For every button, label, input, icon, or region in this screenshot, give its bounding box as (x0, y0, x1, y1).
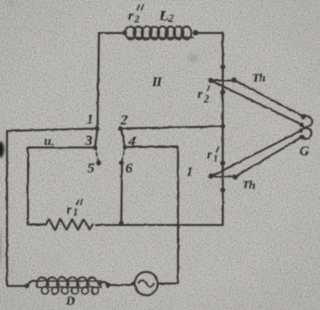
svg-text:2: 2 (168, 14, 175, 25)
svg-text:L: L (159, 9, 169, 25)
svg-text:Th: Th (252, 71, 266, 85)
svg-text:5: 5 (88, 162, 95, 177)
svg-text:II: II (151, 75, 162, 90)
svg-text:D: D (65, 294, 75, 308)
svg-text:4: 4 (128, 134, 136, 149)
svg-text:2: 2 (120, 113, 128, 128)
svg-text:u.: u. (44, 133, 54, 148)
svg-text:1: 1 (73, 208, 78, 219)
svg-text:2: 2 (134, 15, 140, 26)
svg-text:2: 2 (203, 95, 209, 106)
svg-text:I: I (186, 164, 193, 179)
svg-text:1: 1 (87, 113, 94, 128)
svg-text:3: 3 (85, 134, 93, 149)
svg-text:6: 6 (126, 161, 133, 176)
svg-text:1: 1 (213, 154, 218, 165)
svg-text:r: r (128, 9, 134, 24)
svg-text:G: G (300, 144, 310, 159)
svg-text:Th: Th (242, 178, 256, 192)
